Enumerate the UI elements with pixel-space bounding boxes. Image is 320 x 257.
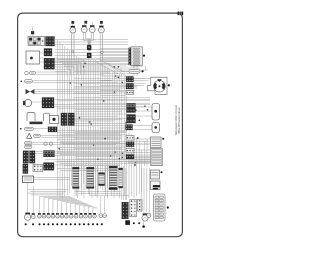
page number 12*7 — [178, 12, 184, 16]
wire: bulb1 down-leads — [72, 33, 74, 60]
wire runs from fuse box — [100, 49, 128, 64]
connector row9 (dark) — [44, 163, 55, 171]
instrument bulb 0 — [31, 213, 35, 219]
front brake switch — [25, 71, 36, 75]
main fuse capsule — [129, 69, 140, 73]
terminal strip (right) — [151, 149, 163, 166]
junction dot A — [137, 137, 139, 139]
inline connector below bulbs (lower) — [87, 53, 92, 58]
connector stack B — [126, 142, 134, 147]
wire stubs right column — [128, 139, 151, 163]
svg-text:1985 to 1987 models (continued: 1985 to 1987 models (continued) — [178, 107, 181, 134]
wire verticals below coils — [75, 189, 114, 199]
caption: wiring diagram title (rotated) — [175, 105, 181, 135]
junction dot right of rectifier — [162, 138, 164, 140]
connector block bottom-mid 2 — [130, 200, 137, 217]
wire verticals right column — [145, 139, 148, 166]
wire junction dots (mesh) — [58, 63, 148, 166]
ignition coil 2 — [86, 167, 94, 188]
wire rows8 — [35, 152, 126, 156]
connector above bulb 4 — [100, 21, 103, 24]
wire verticals pilot lamps — [101, 196, 105, 213]
wire row6 — [41, 135, 122, 137]
fuse box — [128, 47, 142, 66]
headlight pilot bulb — [81, 25, 87, 32]
connector above bulb 2 — [84, 21, 87, 24]
connector (3x2) right-mid 5 — [127, 115, 136, 124]
instrument bulb large (left) — [25, 213, 31, 221]
connector row5 — [48, 127, 57, 132]
connector grid pair (mid-left) — [61, 113, 74, 126]
wire stubs to relays — [133, 107, 153, 130]
wire row brake switch — [36, 72, 110, 74]
relay box with dot — [50, 116, 59, 124]
wire rows9 — [45, 160, 150, 165]
connector above bulb 1 — [71, 21, 74, 24]
connector stack A — [126, 136, 134, 141]
connector block bottom-mid 3 — [137, 200, 142, 212]
connector stack D — [126, 155, 134, 159]
instrument bulb row (13 bulbs) — [38, 213, 97, 218]
wire stubs squares to bulbs — [73, 23, 102, 27]
starter motor connector — [23, 164, 28, 174]
starter relay — [152, 104, 160, 121]
TCI unit box — [23, 176, 34, 183]
wire row5 — [34, 129, 126, 131]
wire stubs ignition switch — [40, 53, 45, 62]
ignitor unit — [151, 170, 160, 179]
spark unit (light) — [98, 173, 104, 186]
junction dot row2 — [21, 81, 23, 83]
ignition coil 3 — [109, 166, 118, 189]
connector pair right-mid 2 — [126, 84, 134, 90]
headlight bulb (sealed beam) — [154, 79, 166, 92]
wire verticals to left bulbs — [28, 183, 34, 214]
wire row horn — [32, 100, 151, 107]
earth square bottom — [125, 220, 130, 225]
neutral switch bracket — [44, 113, 50, 121]
clutch switch (bowtie pair) — [26, 89, 35, 94]
junction dot right of fuse box — [143, 55, 145, 57]
handlebar switch assembly (left) — [28, 36, 45, 45]
meter light bulb — [89, 25, 95, 32]
junction dot right of tail box — [167, 206, 169, 208]
connector pair right-mid 3 — [126, 91, 134, 95]
wire steps into headlight — [134, 78, 151, 85]
junction dot right of ignitor — [161, 171, 163, 173]
headlight housing — [148, 77, 168, 94]
wire: bulbs 2-3 squared funnel — [83, 33, 93, 45]
inline connector below bulbs (upper) — [87, 45, 92, 51]
small round connectors row7 — [44, 142, 53, 145]
ignition switch box — [26, 51, 40, 64]
earth bar — [30, 122, 43, 125]
connector right-mid 6 — [126, 125, 133, 131]
side stand switch bracket — [27, 113, 35, 122]
wire leads tail bulbs — [142, 168, 150, 214]
rectifier/regulator block — [151, 137, 162, 148]
connector block bottom-mid (striped) — [122, 202, 129, 219]
earth dots bottom right — [133, 222, 140, 224]
wire verticals through coil area — [82, 166, 126, 200]
throttle switch capsule — [25, 80, 33, 83]
wire row2 — [33, 80, 118, 82]
oil level switch capsule — [25, 127, 34, 130]
wire: bulb4 down-leads — [100, 33, 102, 60]
turn signal bulb (front left) — [70, 26, 76, 33]
diagram border frame — [18, 13, 183, 237]
license bulb — [147, 213, 151, 217]
earth dot below tail bulb — [142, 221, 145, 228]
ignition coil 1 — [72, 167, 79, 188]
ignition coil 4 (narrow) — [118, 168, 122, 188]
connector (3x2) right-mid 4 — [127, 104, 136, 113]
diagonal wire segments — [96, 60, 126, 76]
junction dot right of main fuse — [142, 70, 144, 72]
alternator connector stack — [23, 151, 35, 163]
wire to main fuse — [121, 68, 142, 72]
turn signal bulb (front right) — [99, 26, 105, 33]
earth dots row — [25, 223, 103, 225]
connector row9 (light) — [33, 165, 43, 172]
junction dot row5 — [20, 128, 22, 130]
wire stub from small connector — [32, 27, 34, 37]
connector at horn — [42, 98, 54, 109]
vertical wire harness (center bundle) — [58, 34, 146, 200]
tail/brake bulb — [142, 213, 148, 221]
grommet on right bulb lead — [101, 51, 103, 53]
wire fan-out to bottom bulbs — [40, 197, 97, 214]
grommet on left bulb lead — [71, 51, 73, 53]
horn — [23, 99, 32, 106]
battery block — [151, 181, 161, 190]
pilot lamp pair — [99, 214, 106, 218]
connector row8 (mid) — [44, 151, 55, 157]
wire runs from connectors — [55, 50, 129, 65]
connector stack C — [126, 148, 134, 153]
wire staircase turns (top-left harness) — [55, 60, 84, 75]
fuel sender capsule — [34, 134, 41, 137]
wire runs from handlebar switches — [54, 40, 128, 45]
tail light assembly box — [154, 194, 166, 221]
wire rows10 — [34, 178, 71, 180]
junction dot right of headlight — [168, 84, 170, 86]
horizontal wire harness (center) — [57, 60, 150, 196]
connector (dark, lower) — [44, 58, 55, 69]
flasher relay — [152, 123, 160, 133]
multi-pin connector pair (top-left) — [46, 37, 55, 47]
connector (small, above handlebar switch) — [31, 31, 34, 34]
pickup coil capsules — [25, 142, 33, 149]
wire row7 — [33, 142, 121, 144]
wire long runs above fan-out — [28, 190, 68, 195]
connector (dark, mid) — [44, 49, 52, 57]
connector pair right-mid 1 — [126, 77, 134, 83]
warning triangle symbol — [27, 133, 32, 138]
wire row3 — [35, 90, 124, 94]
